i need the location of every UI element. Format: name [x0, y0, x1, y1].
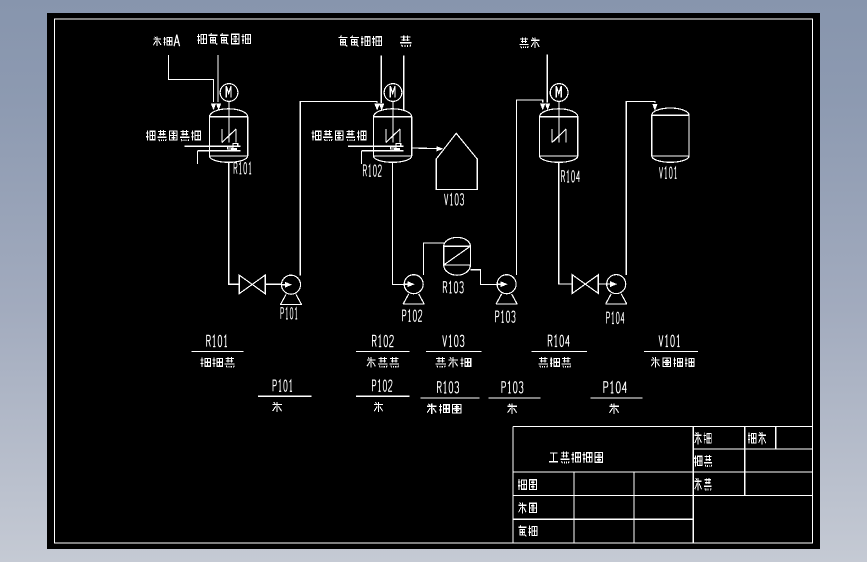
- legend name 溶解釜: [201, 357, 235, 367]
- agitator blades of R104: [552, 129, 566, 143]
- wire P102 discharge to R103: [423, 243, 444, 275]
- arrow P103 discharge into R104: [540, 103, 545, 110]
- cell text 审核: [518, 525, 537, 536]
- title block horizontal line under scale row: [693, 448, 812, 450]
- legend label R103: [437, 382, 458, 393]
- legend underline P104: [591, 397, 643, 399]
- legend name 蒸馏釜: [538, 357, 571, 367]
- wire R103 outlet to P103: [470, 270, 497, 285]
- label heating-steam text near R101: [146, 130, 200, 141]
- title block vertical line col1: [573, 472, 575, 543]
- cell text 截图: [518, 502, 536, 513]
- label P103: [496, 311, 515, 322]
- label P101: [281, 308, 297, 319]
- tank V103 (pointed roof): [436, 133, 477, 189]
- arrow P104 discharge into V101: [652, 104, 657, 111]
- wire R102 side outlet to V103: [412, 147, 438, 150]
- title block vertical line value divider: [744, 427, 746, 496]
- agitator shaft of R104: [558, 101, 560, 142]
- wire valve to pump P101: [265, 283, 281, 285]
- condensate drain of R101: [197, 151, 199, 164]
- wire P103 discharge to R104: [516, 100, 542, 275]
- wire benzene feed to R102: [403, 56, 405, 110]
- motor M of R104: [550, 84, 568, 102]
- legend label P102: [372, 380, 392, 391]
- legend underline R103: [421, 397, 480, 399]
- title block outer border: [513, 427, 813, 544]
- label R101: [234, 163, 251, 174]
- wire R104 outlet to valve: [559, 162, 572, 284]
- arrow hot water into R104: [545, 103, 550, 110]
- agitator blades of R101: [222, 129, 236, 143]
- pump P103: [496, 275, 518, 304]
- label P104: [607, 312, 625, 323]
- legend underline V103: [426, 351, 481, 353]
- label feed hot water (热水): [519, 37, 539, 48]
- agitator shaft of R102: [392, 101, 394, 142]
- motor M of R102: [384, 84, 402, 102]
- wire hot water feed to R104: [546, 55, 548, 103]
- arrow bisphenol-A into R101: [211, 103, 216, 110]
- label R103: [443, 282, 463, 293]
- condensate drain of R102: [361, 151, 363, 164]
- agitator shaft of R101: [228, 101, 230, 142]
- arrow P101 discharge into R102: [374, 104, 379, 111]
- steam inlet line of R102: [348, 145, 404, 147]
- cell text 描图: [518, 479, 536, 490]
- label V103: [444, 194, 463, 205]
- cell text 材料: [748, 432, 766, 444]
- reactor R101 vessel: [210, 109, 248, 163]
- legend label P104: [604, 382, 627, 393]
- cell text 质量: [695, 478, 712, 491]
- condensate line of R101: [198, 150, 241, 152]
- pump P104: [605, 275, 627, 304]
- label V101: [659, 167, 676, 178]
- label feed epichlorohydrin (环氧氯丙烷): [197, 33, 251, 44]
- valve near P104: [572, 275, 598, 294]
- title text 工艺流程图 (process flow diagram): [549, 451, 603, 463]
- label P102: [403, 310, 422, 321]
- pump P102: [403, 275, 425, 304]
- legend label R101: [207, 335, 227, 346]
- steam inlet arrow of R102: [391, 144, 401, 149]
- legend underline R102: [356, 351, 409, 353]
- label heating-steam text near R102: [312, 130, 366, 141]
- reactor R102 vessel: [374, 109, 412, 163]
- legend name 过滤器: [427, 404, 461, 414]
- legend label R102: [372, 335, 393, 346]
- legend label V101: [659, 335, 680, 346]
- legend name 泵: [507, 404, 516, 414]
- legend underline V101: [644, 351, 698, 353]
- legend underline P103: [489, 397, 541, 399]
- motor M of R101: [220, 84, 238, 102]
- pump P101: [280, 275, 302, 304]
- steam inlet arrow of R101: [228, 144, 238, 149]
- title block horizontal line left portion: [513, 518, 693, 520]
- legend underline R101: [192, 351, 244, 353]
- legend name 废水槽: [435, 357, 470, 367]
- condensate arrow of R101: [231, 148, 237, 150]
- legend name 泵: [374, 402, 383, 412]
- legend name 反应釜: [367, 357, 399, 367]
- condensate arrow of R102: [394, 148, 400, 150]
- cell text 数量: [694, 455, 712, 467]
- legend label P103: [502, 382, 523, 393]
- title block vertical line material divider: [775, 427, 777, 450]
- label R102: [363, 165, 381, 176]
- wire P104 discharge to V101: [626, 101, 655, 275]
- legend name 成品储槽: [651, 357, 694, 367]
- steam inlet line of R101: [185, 145, 241, 147]
- title block vertical line main divider: [692, 427, 694, 544]
- legend name 泵: [272, 402, 281, 412]
- wire P101 discharge to R102: [300, 101, 377, 275]
- reactor R104 vessel: [540, 109, 578, 163]
- legend label V103: [443, 335, 464, 346]
- wire epichlorohydrin feed to R101: [217, 55, 219, 102]
- legend label P101: [273, 380, 292, 391]
- legend underline P102: [356, 395, 409, 397]
- tank V101 vessel: [652, 108, 689, 162]
- cell text 比例: [695, 432, 712, 444]
- legend label R104: [548, 335, 569, 346]
- legend underline P101: [258, 395, 311, 397]
- title block horizontal line full width 1: [513, 471, 813, 473]
- agitator blades of R102: [386, 129, 400, 143]
- title block vertical line col2: [633, 472, 635, 543]
- filter R103 vessel: [444, 237, 471, 275]
- legend name 泵: [609, 404, 619, 414]
- wire sodium hydroxide feed to R102: [380, 56, 382, 103]
- valve near P101: [239, 275, 265, 294]
- wire valve to pump P104: [598, 283, 606, 285]
- condensate line of R102: [362, 150, 404, 152]
- label feed Bisphenol-A (双酚A): [153, 36, 172, 46]
- arrow sodium hydroxide into R102: [379, 104, 384, 111]
- title block horizontal line full width 2: [513, 495, 813, 497]
- wire R102 bottom outlet to P102: [393, 162, 405, 284]
- arrow epichlorohydrin into R101: [216, 103, 221, 110]
- legend underline R104: [532, 351, 587, 353]
- arrow into V103: [436, 146, 443, 151]
- wire R101 outlet to valve: [229, 162, 240, 284]
- label feed sodium hydroxide (氢氧化钠): [339, 35, 382, 46]
- label feed benzene (苯): [400, 35, 411, 46]
- wire bisphenol-A feed to R101: [169, 55, 214, 102]
- label R104: [562, 171, 580, 182]
